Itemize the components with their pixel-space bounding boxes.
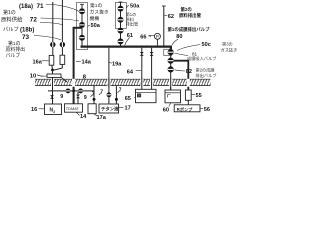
wire drop 64 [141, 48, 143, 79]
valve 81 [168, 58, 174, 63]
svg-text:P: P [156, 34, 159, 39]
main pipe line [81, 47, 171, 50]
svg-text:14a: 14a [82, 60, 92, 66]
svg-text:61: 61 [127, 33, 133, 39]
pump box 60 [165, 90, 181, 103]
tank N2 box [45, 104, 62, 115]
svg-text:72: 72 [30, 17, 38, 24]
wire drop to box4 right [115, 85, 117, 104]
wire pipe 18b [61, 0, 63, 55]
leader 60 [169, 103, 171, 107]
wire gauge stem [156, 39, 158, 45]
wire re-draw pipes through band [52, 78, 54, 91]
leader 7 third [118, 91, 120, 93]
enclosure 50b box [115, 3, 126, 29]
svg-text:バルブ: バルブ [3, 25, 19, 33]
svg-text:17: 17 [125, 106, 131, 112]
leader 66 [149, 34, 155, 37]
distribution line [48, 90, 94, 92]
leader 56 [200, 107, 203, 109]
svg-text:9: 9 [60, 94, 63, 100]
svg-text:71: 71 [37, 3, 45, 10]
leader 61 [125, 38, 130, 46]
leader 16 [39, 108, 45, 110]
valve on drop 19a [150, 52, 154, 56]
svg-text:~: ~ [148, 34, 151, 40]
leader 50a left [88, 25, 90, 26]
wire drop through wafer to N2 [52, 70, 54, 104]
node junction [51, 69, 54, 72]
leader 19a [109, 62, 112, 65]
wire pipe 18a [52, 2, 54, 55]
svg-text:原料排出管: 原料排出管 [179, 12, 202, 19]
valve TDMAT drop [76, 92, 80, 104]
svg-text:排出バルブ: 排出バルブ [196, 72, 218, 79]
svg-text:14: 14 [80, 114, 87, 120]
tank box 17 [99, 104, 119, 113]
valve dot box3 drop [93, 98, 96, 101]
pipe 14a thick TDMAT riser [73, 28, 75, 104]
valve circle 19a drop [107, 93, 111, 97]
wafer plate 10 [47, 74, 61, 77]
leader 14 [77, 113, 80, 116]
leader 71 [46, 5, 79, 12]
leader 14a [76, 60, 81, 62]
leader 80 [172, 39, 178, 45]
leader 17a [94, 114, 97, 117]
svg-text:第1の: 第1の [8, 40, 21, 47]
svg-text:50a: 50a [91, 23, 101, 29]
node junction riser/dist [72, 90, 75, 93]
svg-text:60: 60 [163, 108, 169, 114]
valve on dist line right [78, 89, 82, 93]
leader 72 [41, 18, 80, 21]
svg-text:62: 62 [168, 14, 174, 20]
valve 72 [79, 35, 84, 40]
leader 16a [42, 60, 49, 62]
leader 82 [175, 70, 186, 71]
svg-text:50c: 50c [202, 42, 211, 48]
leader 50a right [126, 5, 129, 8]
svg-text:Rポンプ: Rポンプ [177, 106, 193, 113]
valve stack2 v3 [118, 28, 123, 33]
leader 65 [133, 97, 136, 99]
svg-text:73: 73 [22, 34, 30, 41]
injector 16b body right [60, 55, 65, 64]
injector 16a body left [49, 55, 54, 65]
wire strut [61, 77, 67, 82]
wire capsule to pump56 [187, 100, 189, 105]
leader 73 [34, 36, 61, 41]
wire drop 19a [151, 48, 153, 79]
svg-text:17a: 17a [97, 115, 107, 120]
wire branch stack1 to riser [73, 27, 82, 29]
wire right stack [170, 49, 172, 89]
leader 7 second [99, 93, 101, 95]
pipe 82 exhaust thick [174, 61, 189, 90]
svg-text:TDMAT: TDMAT [66, 106, 80, 111]
wire drop to box3 [93, 85, 95, 103]
wire stack1 line [81, 4, 83, 46]
leader 81 [175, 53, 189, 56]
tank TDMAT box [65, 104, 83, 112]
svg-text:排出管: 排出管 [126, 21, 139, 28]
valve dot box4 drop [115, 98, 118, 101]
chamber table hatch band [35, 79, 211, 87]
svg-text:ガス抜き機構: ガス抜き機構 [221, 47, 238, 54]
enclosure 50a box [77, 3, 88, 50]
heater box 65 [136, 89, 157, 102]
svg-text:65: 65 [125, 96, 131, 102]
leader 17 [119, 106, 124, 108]
wire stack1 top tick [80, 3, 84, 5]
valve on pipe 18b [60, 42, 65, 47]
svg-text:56: 56 [204, 107, 210, 113]
svg-text:2: 2 [53, 110, 55, 114]
svg-text:82: 82 [186, 69, 192, 75]
trap box 17a [88, 104, 96, 114]
svg-text:9: 9 [84, 95, 87, 101]
svg-text:55: 55 [196, 93, 202, 99]
wire merge from injectors [52, 64, 63, 70]
svg-text:7: 7 [119, 87, 122, 93]
svg-text:チタン液: チタン液 [101, 106, 119, 113]
leader 18b [40, 23, 62, 25]
leader 10 [37, 75, 47, 76]
svg-text:機構: 機構 [90, 15, 100, 22]
valve on dist line left [66, 89, 70, 93]
valve on drop 64 [140, 52, 144, 56]
leader 50c [177, 45, 200, 51]
valve stack2 v4 [118, 39, 123, 44]
svg-text:成膜吸入バルブ: 成膜吸入バルブ [187, 55, 217, 62]
svg-text:原料供給: 原料供給 [1, 16, 23, 24]
valve stack2 v1 [118, 6, 123, 11]
leader 7 first [91, 95, 93, 97]
wire pipe62 top tick [162, 5, 166, 7]
wire drop pipe 19a [108, 48, 110, 104]
valve stack1 mid [79, 22, 84, 27]
svg-text:第1の: 第1の [90, 2, 102, 9]
svg-text:66: 66 [140, 34, 146, 40]
gauge P 66 [154, 33, 160, 39]
svg-text:50a: 50a [130, 4, 140, 10]
valve N2 drop [50, 95, 54, 99]
svg-text:7: 7 [100, 89, 103, 95]
svg-text:10: 10 [30, 73, 36, 79]
svg-text:80: 80 [176, 34, 182, 40]
pipe 62 [163, 6, 165, 46]
svg-text:第2の: 第2の [181, 6, 193, 13]
valve 82 [168, 67, 174, 72]
svg-text:16a: 16a [33, 59, 43, 65]
svg-text:16: 16 [31, 107, 37, 113]
wire stack2 top tick [119, 1, 123, 3]
svg-text:原料排出: 原料排出 [6, 46, 26, 53]
leader 62 [164, 15, 167, 17]
svg-text:第1の: 第1の [3, 9, 16, 16]
svg-text:64: 64 [127, 69, 134, 75]
valve 80 [168, 50, 174, 55]
wire stack2 line [120, 2, 122, 47]
enclosure 50c box [164, 49, 172, 55]
svg-text:(18a): (18a) [19, 4, 33, 10]
svg-text:(18b): (18b) [20, 27, 34, 33]
svg-text:第1の成膜排出バルブ: 第1の成膜排出バルブ [168, 26, 211, 33]
svg-text:第3の: 第3の [222, 41, 233, 48]
svg-text:7: 7 [92, 92, 95, 98]
valve 71 [79, 9, 84, 14]
leader 55 [192, 94, 196, 96]
valve on pipe 18a [50, 42, 55, 47]
svg-text:19a: 19a [112, 62, 122, 68]
pump box 56 [174, 105, 200, 112]
svg-text:バルブ: バルブ [6, 52, 21, 59]
leader 64 [136, 70, 141, 72]
valve stack2 v2 [118, 17, 123, 22]
valve capsule 55 [185, 90, 191, 100]
svg-text:ガス抜き: ガス抜き [90, 8, 109, 15]
